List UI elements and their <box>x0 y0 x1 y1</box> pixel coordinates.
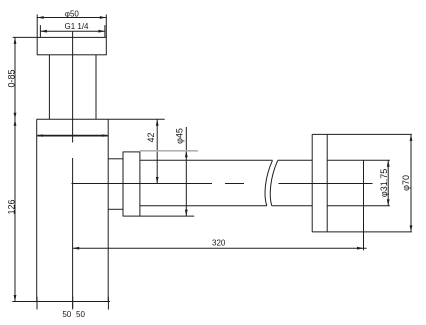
arrowhead phi45 bottom <box>185 210 188 217</box>
svg-text:φ31.75: φ31.75 <box>379 169 389 197</box>
outlet nut <box>123 152 140 216</box>
svg-text:φ50: φ50 <box>65 9 80 18</box>
body right edge <box>107 119 109 301</box>
pipe break curve left <box>265 160 272 206</box>
arrowhead 0-85 top <box>14 37 17 44</box>
dim phi45 bottom extension <box>140 215 194 217</box>
pipe top edge right of break <box>278 159 312 161</box>
body bottom edge + left extension <box>12 301 110 303</box>
arrowhead body joint left <box>37 134 43 137</box>
dim 320 line <box>73 247 367 249</box>
arrowhead phi70 bottom <box>410 225 413 232</box>
arrowhead G1 left <box>40 30 47 33</box>
body vertical centerline upper segment <box>72 31 74 142</box>
dim phi50 extension right <box>105 15 107 38</box>
dim phi45 line <box>185 127 187 216</box>
dim phi50 line <box>37 17 106 19</box>
wall flange left edge <box>311 134 313 232</box>
inlet tailpipe left edge <box>48 55 50 120</box>
pipe bottom edge right of break <box>272 205 312 207</box>
svg-text:50: 50 <box>76 310 85 319</box>
arrowhead 42 top <box>156 119 159 126</box>
dim phi45 gray top extension <box>140 150 198 152</box>
svg-text:φ45: φ45 <box>175 128 185 144</box>
dim 0-85/126 vertical line <box>14 37 16 301</box>
arrowhead phi45 top <box>185 151 188 158</box>
svg-text:42: 42 <box>146 132 156 142</box>
outlet horizontal centerline dash <box>225 183 244 185</box>
svg-text:320: 320 <box>212 239 226 248</box>
outlet collar top <box>108 158 123 160</box>
body cup joint thick line <box>37 135 108 137</box>
pipe top edge left of break <box>140 159 273 161</box>
body vertical centerline lower segment <box>72 158 74 308</box>
pipe bottom edge in wall + phi31.75 extension <box>327 205 390 207</box>
arrowhead phi70 top <box>410 134 413 141</box>
bottom tick left <box>36 297 38 310</box>
arrowhead G1 right <box>98 30 105 33</box>
arrowhead 320 right <box>357 247 364 250</box>
bottom tick right <box>107 297 109 310</box>
body left edge <box>36 119 38 301</box>
dim phi50 extension left <box>36 15 38 38</box>
dim phi70 line <box>410 134 412 232</box>
arrowhead phi31.75 top <box>387 160 390 167</box>
body top edge + extension to 42 dim <box>37 118 165 120</box>
svg-text:126: 126 <box>7 199 17 214</box>
dim 42 line <box>156 119 158 183</box>
arrowhead 320 left <box>73 247 80 250</box>
arrowhead 126 top <box>14 119 17 126</box>
arrowhead phi50 right <box>100 16 107 19</box>
pipe break curve right <box>270 160 278 206</box>
inlet nut flange <box>37 37 106 54</box>
arrowhead 42 bottom <box>156 177 159 184</box>
dim G1 1/4 tick left <box>39 25 41 37</box>
arrowhead phi31.75 bottom <box>387 199 390 206</box>
arrowhead 126 bottom <box>14 295 17 302</box>
bottom tick center <box>72 297 74 310</box>
svg-text:0-85: 0-85 <box>6 69 16 87</box>
pipe top edge in wall + phi31.75 extension <box>327 159 390 161</box>
wall flange bottom edge + phi70 extension <box>312 231 412 233</box>
dim G1 1/4 tick right <box>104 25 106 37</box>
svg-text:50: 50 <box>62 310 71 319</box>
inlet tailpipe right edge <box>95 55 97 120</box>
arrowhead 0-85 bottom <box>14 113 17 120</box>
pipe bottom edge left of break <box>140 205 267 207</box>
wall flange right edge <box>326 134 328 232</box>
arrowhead body joint right <box>102 134 108 137</box>
outlet horizontal centerline segment 1 <box>72 183 213 185</box>
svg-text:G1 1/4: G1 1/4 <box>64 22 89 31</box>
outlet horizontal centerline segment 2 <box>279 183 373 185</box>
pipe end / 320 extension vertical <box>363 160 365 250</box>
dim 0-85/126 top extension <box>13 36 38 38</box>
wall flange top edge + phi70 extension <box>312 133 412 135</box>
arrowhead phi50 left <box>37 16 44 19</box>
svg-text:φ70: φ70 <box>401 175 411 191</box>
outlet collar bottom <box>108 208 123 210</box>
dim phi31.75 line <box>387 160 389 206</box>
dim G1 1/4 line <box>40 30 105 32</box>
